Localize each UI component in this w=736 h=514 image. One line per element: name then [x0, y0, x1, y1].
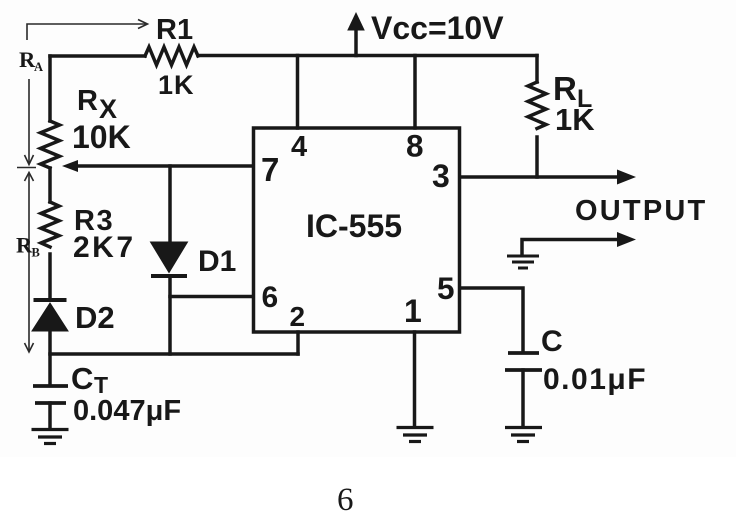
- wire R3 to D2: [48, 254, 52, 299]
- wire RX to R3: [48, 168, 52, 202]
- svg-text:5: 5: [437, 270, 455, 306]
- svg-text:6: 6: [262, 281, 279, 314]
- power Vcc arrow: [347, 12, 365, 31]
- wire CT stem lower: [48, 403, 52, 428]
- svg-text:R: R: [77, 85, 98, 117]
- wire pin1 drop: [413, 332, 417, 426]
- diode D2: [32, 300, 68, 331]
- capacitor CT plates: [33, 386, 68, 403]
- svg-text:0.047μF: 0.047μF: [73, 395, 181, 427]
- wire top rail right segment: [198, 54, 537, 58]
- capacitor C plates: [505, 353, 542, 370]
- svg-text:1: 1: [404, 293, 422, 329]
- ground below pin1: [397, 428, 434, 442]
- svg-text:B: B: [32, 246, 40, 260]
- svg-text:OUTPUT: OUTPUT: [575, 195, 707, 227]
- wire pin5 to C: [460, 288, 523, 351]
- wire bottom rail: [50, 352, 298, 356]
- measure arrow RA vertical: [17, 79, 36, 168]
- svg-text:2: 2: [290, 301, 306, 332]
- svg-text:R1: R1: [156, 14, 193, 46]
- wire D1 branch: [168, 166, 172, 242]
- node wiper arrowhead pin7: [62, 160, 78, 172]
- wire RL bottom drop: [535, 137, 539, 177]
- diode D1: [151, 242, 188, 276]
- svg-text:C: C: [71, 361, 93, 396]
- ground below CT: [32, 430, 69, 444]
- wire Vcc stem: [354, 28, 358, 56]
- resistor R3: [41, 202, 59, 247]
- measure arrow RB vertical: [25, 173, 34, 353]
- resistor R1: [145, 47, 198, 65]
- svg-text:2K7: 2K7: [73, 231, 136, 264]
- svg-text:Vcc=10V: Vcc=10V: [371, 10, 504, 46]
- svg-text:IC-555: IC-555: [306, 208, 402, 244]
- op-amp U1 IC-555 box: [254, 128, 460, 332]
- wire pin6: [170, 295, 253, 299]
- wire pin7 from IC: [77, 164, 253, 168]
- svg-text:1K: 1K: [158, 70, 195, 100]
- ground below C: [505, 428, 542, 442]
- svg-text:C: C: [541, 325, 563, 358]
- svg-text:D2: D2: [75, 300, 115, 335]
- svg-text:10K: 10K: [72, 119, 131, 155]
- svg-text:1K: 1K: [555, 102, 595, 137]
- wire D2 to bottom rail and to CT: [48, 331, 52, 385]
- svg-text:A: A: [34, 60, 43, 74]
- wire left rail top drop: [48, 56, 52, 121]
- wire D1 cathode to bottom rail: [168, 276, 172, 354]
- wire output2 with corner: [522, 240, 621, 256]
- wire pin2 drop: [296, 332, 300, 354]
- resistor RL: [528, 82, 546, 128]
- svg-text:8: 8: [406, 128, 424, 164]
- svg-text:7: 7: [261, 151, 279, 188]
- svg-text:3: 3: [432, 158, 450, 194]
- svg-text:D1: D1: [198, 245, 236, 278]
- wire pin8 riser: [413, 56, 417, 129]
- wire pin4 riser: [296, 56, 300, 129]
- wire C stem lower: [521, 370, 525, 426]
- svg-text:R: R: [16, 233, 33, 258]
- measure arrow RA top: [27, 20, 148, 41]
- svg-text:6: 6: [337, 482, 354, 514]
- wire pin3 output: [460, 175, 621, 179]
- node pin3 arrowhead: [617, 170, 636, 185]
- ground output2: [507, 256, 539, 268]
- wire top rail left segment: [50, 54, 145, 58]
- svg-text:0.01μF: 0.01μF: [543, 363, 647, 396]
- node output2 arrowhead: [617, 232, 636, 247]
- potentiometer RX body: [41, 121, 60, 168]
- wire RL top drop: [535, 56, 539, 83]
- svg-text:4: 4: [291, 131, 307, 163]
